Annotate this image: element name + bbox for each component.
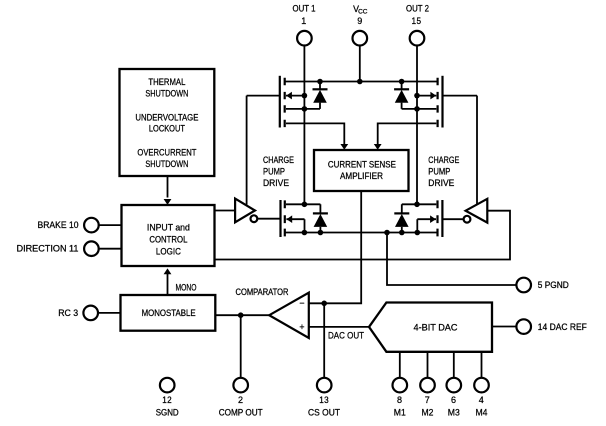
svg-text:COMPARATOR: COMPARATOR bbox=[236, 287, 289, 297]
wire DAC to DAC REF bbox=[492, 326, 517, 328]
pin DAC REF (14) bbox=[516, 319, 587, 334]
svg-text:DAC OUT: DAC OUT bbox=[328, 330, 365, 340]
svg-text:AMPLIFIER: AMPLIFIER bbox=[340, 171, 383, 181]
transistor bottom-right DMOS channel segments bbox=[436, 200, 438, 236]
svg-text:LOCKOUT: LOCKOUT bbox=[149, 124, 186, 134]
svg-text:MONOSTABLE: MONOSTABLE bbox=[142, 308, 196, 318]
transistor top-right sense stub to amplifier bbox=[374, 123, 437, 149]
wire VCC drop bbox=[359, 45, 361, 81]
svg-text:DRIVE: DRIVE bbox=[428, 178, 454, 188]
transistor bottom-right DMOS gate bar bbox=[441, 200, 443, 237]
transistor top-left DMOS channel segments bbox=[284, 78, 286, 127]
wire top-right gate lead bbox=[443, 95, 478, 97]
wire CS OUT branch bbox=[323, 303, 325, 378]
pin M2 (7) bbox=[420, 378, 435, 418]
wire DIRECTION to logic bbox=[99, 248, 122, 250]
pin OUT 1 (1) bbox=[293, 4, 316, 46]
wire top-left gate lead bbox=[247, 95, 280, 97]
wire comparator plus input from DAC bbox=[309, 326, 369, 328]
svg-text:INPUT and: INPUT and bbox=[147, 223, 190, 233]
wire right charge pump drive line bbox=[476, 96, 478, 205]
wire M4 to DAC bbox=[481, 352, 483, 378]
svg-text:DRIVE: DRIVE bbox=[263, 178, 289, 188]
pin M1 (8) bbox=[393, 378, 408, 418]
svg-text:COMP OUT: COMP OUT bbox=[219, 407, 264, 417]
transistor bottom-right body stub with arrow bbox=[417, 215, 436, 232]
svg-text:SGND: SGND bbox=[156, 407, 179, 417]
svg-text:13: 13 bbox=[319, 395, 329, 405]
svg-text:1: 1 bbox=[301, 16, 307, 26]
DAC U3 4-BIT DAC bbox=[369, 303, 492, 352]
transistor bottom-left DMOS channel segments bbox=[284, 200, 286, 236]
svg-text:CHARGE: CHARGE bbox=[263, 155, 294, 165]
svg-text:SHUTDOWN: SHUTDOWN bbox=[145, 89, 188, 99]
svg-text:−: − bbox=[299, 298, 304, 308]
svg-text:CS OUT: CS OUT bbox=[308, 407, 341, 417]
wire logic to right buffer (long route) bbox=[215, 211, 511, 260]
label left CHARGE PUMP DRIVE bbox=[263, 155, 294, 188]
svg-text:9: 9 bbox=[357, 16, 363, 26]
svg-text:7: 7 bbox=[425, 395, 431, 405]
svg-text:RC 3: RC 3 bbox=[58, 308, 78, 318]
wire left buffer bubble to bottom-left gate bbox=[257, 218, 280, 220]
wire RC to monostable bbox=[98, 312, 121, 314]
diode bottom-right (body diode) bbox=[394, 213, 409, 232]
wire OUT1 vertical bbox=[303, 45, 305, 204]
svg-text:+: + bbox=[299, 322, 304, 332]
pin BRAKE (10) bbox=[38, 218, 99, 233]
node OUT2-source junction bbox=[414, 106, 420, 112]
svg-text:LOGIC: LOGIC bbox=[156, 247, 182, 257]
node rail-diode-right junction bbox=[399, 79, 405, 85]
svg-text:CURRENT SENSE: CURRENT SENSE bbox=[328, 159, 396, 169]
wire comparator output to monostable bbox=[215, 314, 269, 316]
wire M1 to DAC bbox=[399, 352, 401, 378]
wire bottom source rail bbox=[285, 232, 438, 234]
node OUT1-source junction bbox=[302, 106, 308, 112]
svg-text:OUT 1: OUT 1 bbox=[293, 4, 316, 14]
svg-text:6: 6 bbox=[451, 395, 457, 405]
diode top-left (body diode) bbox=[313, 82, 328, 109]
svg-text:BRAKE 10: BRAKE 10 bbox=[38, 220, 79, 230]
transistor top-right DMOS channel segments bbox=[437, 78, 439, 127]
svg-text:CC: CC bbox=[358, 9, 368, 16]
svg-text:OVERCURRENT: OVERCURRENT bbox=[137, 148, 197, 158]
pin M4 (4) bbox=[474, 378, 489, 418]
svg-text:M4: M4 bbox=[476, 407, 488, 417]
amplifier U1 CURRENT SENSE AMPLIFIER box bbox=[314, 150, 409, 191]
svg-text:12: 12 bbox=[162, 395, 172, 405]
pin COMP OUT (2) bbox=[219, 378, 264, 418]
svg-text:OUT 2: OUT 2 bbox=[406, 4, 429, 14]
pin PGND (5) bbox=[516, 278, 568, 293]
pin VCC (9) bbox=[353, 4, 368, 46]
svg-text:5 PGND: 5 PGND bbox=[538, 280, 569, 290]
node source rail junctions left bbox=[302, 230, 324, 236]
buffer left gate driver triangle with bubble bbox=[235, 199, 257, 223]
transistor top-left source stub bbox=[286, 108, 320, 110]
node CS branch junction bbox=[321, 301, 327, 307]
node source rail junctions right bbox=[384, 230, 420, 236]
node OUT1-drain junction bbox=[302, 202, 308, 208]
svg-text:8: 8 bbox=[397, 395, 403, 405]
node OUT2-drain junction bbox=[414, 202, 420, 208]
transistor top-left sense stub to amplifier bbox=[286, 123, 348, 149]
comparator U2 bbox=[236, 287, 309, 338]
wire OUT2 vertical bbox=[416, 45, 418, 204]
transistor bottom-left body stub with arrow bbox=[286, 215, 304, 232]
transistor bottom-right drain stub bbox=[402, 204, 437, 213]
svg-text:CONTROL: CONTROL bbox=[149, 235, 187, 245]
node rail-diode-left junction bbox=[317, 79, 323, 85]
pin RC (3) bbox=[58, 306, 98, 321]
pin M3 (6) bbox=[447, 378, 462, 418]
svg-text:PUMP: PUMP bbox=[263, 167, 285, 177]
transistor top-right body stub with arrow bbox=[417, 92, 436, 100]
wire M3 to DAC bbox=[453, 352, 455, 378]
svg-text:14 DAC REF: 14 DAC REF bbox=[538, 322, 588, 332]
svg-text:UNDERVOLTAGE: UNDERVOLTAGE bbox=[135, 113, 198, 123]
transistor top-left body stub with arrow bbox=[286, 92, 304, 100]
svg-text:15: 15 bbox=[412, 16, 422, 26]
transistor bottom-left DMOS gate bar bbox=[279, 200, 281, 237]
wire left charge pump drive line bbox=[246, 96, 248, 205]
box MONOSTABLE bbox=[121, 295, 216, 331]
svg-text:SHUTDOWN: SHUTDOWN bbox=[145, 159, 188, 169]
pin SGND (12) bbox=[156, 378, 179, 418]
box THERMAL SHUTDOWN / UNDERVOLTAGE LOCKOUT / OVERCURRENT SHUTDOWN bbox=[120, 69, 215, 176]
pin OUT 2 (15) bbox=[406, 4, 429, 46]
svg-text:2: 2 bbox=[238, 395, 244, 405]
svg-text:DIRECTION 11: DIRECTION 11 bbox=[17, 244, 79, 254]
wire right buffer bubble to bottom-right gate bbox=[442, 218, 463, 220]
label right CHARGE PUMP DRIVE bbox=[428, 155, 459, 188]
transistor bottom-left drain stub bbox=[286, 204, 320, 213]
pin DIRECTION (11) bbox=[17, 241, 99, 256]
buffer right gate driver triangle with bubble bbox=[464, 199, 488, 223]
wire top supply rail bbox=[285, 81, 438, 83]
node COMP OUT junction bbox=[238, 312, 244, 318]
transistor top-right source stub bbox=[402, 108, 437, 110]
svg-text:CHARGE: CHARGE bbox=[428, 155, 459, 165]
transistor top-left DMOS gate bar bbox=[279, 76, 281, 128]
node OUT1-body junction bbox=[302, 93, 308, 99]
svg-text:PUMP: PUMP bbox=[428, 167, 450, 177]
svg-text:4-BIT DAC: 4-BIT DAC bbox=[414, 322, 459, 332]
diode top-right (body diode) bbox=[394, 82, 409, 109]
transistor top-right DMOS gate bar bbox=[441, 76, 443, 128]
wire sense amplifier output to comparator minus input bbox=[309, 191, 361, 303]
svg-text:M3: M3 bbox=[448, 407, 460, 417]
svg-text:MONO: MONO bbox=[176, 283, 197, 293]
box INPUT and CONTROL LOGIC bbox=[122, 205, 215, 266]
node VCC-rail junction bbox=[357, 79, 363, 85]
wire M2 to DAC bbox=[427, 352, 429, 378]
diode bottom-left (body diode) bbox=[313, 213, 328, 232]
wire source rail to PGND bbox=[387, 233, 517, 286]
pin CS OUT (13) bbox=[308, 378, 341, 418]
wire COMP OUT branch bbox=[240, 315, 242, 378]
node OUT2-body junction bbox=[414, 93, 420, 99]
wire thermal box to logic box with arrow bbox=[164, 177, 172, 205]
label DAC OUT bbox=[328, 330, 365, 340]
wire logic to left buffer bbox=[215, 210, 236, 212]
svg-text:THERMAL: THERMAL bbox=[148, 77, 185, 87]
wire BRAKE to logic bbox=[99, 224, 122, 226]
svg-text:M1: M1 bbox=[394, 407, 406, 417]
svg-text:4: 4 bbox=[479, 395, 485, 405]
svg-text:M2: M2 bbox=[422, 407, 434, 417]
wire monostable to logic with arrow (MONO) bbox=[164, 268, 197, 294]
